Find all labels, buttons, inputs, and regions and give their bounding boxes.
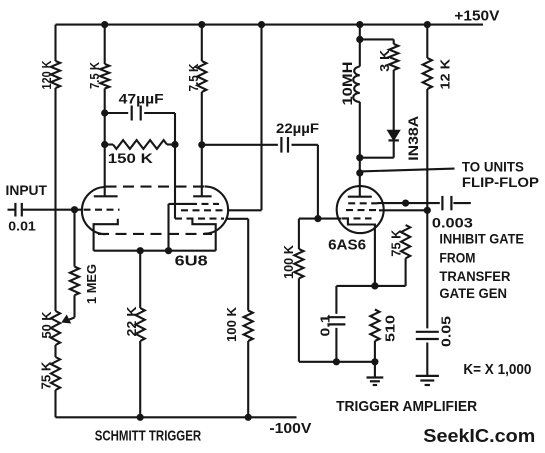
- 6AS6 screen lead to output: [378, 202, 406, 204]
- resistor 75K lower-left: [51, 357, 60, 390]
- wire 0.05 bottom lead: [426, 343, 428, 376]
- node top rail / 12K junction: [424, 21, 431, 28]
- svg-text:INHIBIT GATE: INHIBIT GATE: [439, 232, 524, 247]
- svg-text:7.5 K: 7.5 K: [88, 62, 102, 89]
- svg-text:120 K: 120 K: [40, 61, 54, 90]
- wire 150K right stub: [167, 143, 175, 145]
- wire 0.1 bottom lead: [335, 328, 337, 362]
- svg-text:22 K: 22 K: [125, 307, 139, 337]
- svg-text:SCHMITT TRIGGER: SCHMITT TRIGGER: [95, 427, 202, 444]
- wire 150K left stub: [105, 143, 113, 145]
- wire 47uuF left lead: [105, 112, 129, 114]
- svg-text:+150V: +150V: [454, 8, 499, 25]
- potentiometer wiper arrow into 50K: [64, 318, 75, 322]
- wire 22K bottom lead: [139, 341, 141, 417]
- node 12K / grid3 junction: [424, 207, 431, 214]
- capacitor 0.1: [327, 316, 345, 318]
- wire 100K schmitt bottom lead: [247, 341, 249, 417]
- wire 0.1 top lead: [335, 286, 337, 314]
- 6AS6 cathode: [348, 219, 375, 286]
- svg-text:6AS6: 6AS6: [328, 237, 366, 253]
- wire cathode bus: [94, 250, 216, 252]
- svg-text:GATE GEN: GATE GEN: [439, 286, 507, 301]
- wire 7.5K-2 to V2 plate node: [201, 92, 203, 196]
- wire left column to -100V rail: [54, 390, 56, 417]
- resistor 7.5K second: [197, 61, 206, 92]
- resistor 1 MEG: [70, 267, 79, 296]
- capacitor 47uuF: [131, 106, 133, 121]
- node -100V rail / 100K junction: [245, 414, 252, 421]
- resistor 150K coupling: [113, 140, 167, 149]
- svg-text:TO UNITS: TO UNITS: [462, 159, 524, 175]
- wire 510 bottom lead: [374, 341, 376, 362]
- wire 7.5K-2 top lead: [201, 25, 203, 61]
- wire trigger-amp ground bus: [299, 361, 375, 363]
- svg-text:75 K: 75 K: [390, 230, 404, 257]
- wire 7.5K-1 to plate node: [104, 89, 106, 146]
- node bus / 0.1 junction: [333, 358, 340, 365]
- resistor 22K: [136, 308, 145, 341]
- node cathode / 510 junction: [371, 282, 378, 289]
- svg-text:100 K: 100 K: [225, 307, 239, 342]
- svg-text:-100V: -100V: [269, 420, 311, 437]
- ground below 510: [374, 362, 376, 378]
- svg-text:1 MEG: 1 MEG: [85, 264, 99, 304]
- wire 12K bottom lead: [426, 89, 428, 210]
- resistor 75K trigger: [401, 225, 410, 258]
- wire left column mid segment: [54, 88, 56, 311]
- V1 triode plate: [94, 195, 118, 197]
- svg-text:150 K: 150 K: [108, 151, 153, 166]
- svg-text:0.003: 0.003: [432, 216, 474, 231]
- wire V2 plate to 22uuF: [202, 144, 278, 146]
- wire 22uuF to grid drop: [292, 144, 318, 146]
- wire output to flip-flop: [360, 169, 455, 172]
- svg-text:47µµF: 47µµF: [119, 92, 164, 107]
- V1 triode grid (dashed): [84, 209, 120, 211]
- wire -100V rail: [56, 416, 297, 418]
- svg-text:TRANSFER: TRANSFER: [439, 269, 510, 284]
- svg-text:50 K: 50 K: [40, 312, 54, 339]
- svg-text:22µµF: 22µµF: [276, 121, 319, 136]
- tube 6U8 envelope right arc: [205, 186, 229, 233]
- inductor 10MH: [353, 67, 360, 102]
- wire 3K to diode: [393, 70, 395, 131]
- resistor 100K trigger: [294, 249, 303, 278]
- node cathode bus / 22K junction: [137, 247, 144, 254]
- resistor 3K: [389, 44, 398, 70]
- wire grid junction to 100K: [299, 218, 318, 220]
- svg-text:10MH: 10MH: [339, 62, 355, 106]
- ground below 0.05: [416, 375, 439, 377]
- svg-text:7.5 K: 7.5 K: [187, 64, 201, 92]
- svg-text:IN38A: IN38A: [406, 116, 421, 161]
- wire screen-grid drop: [260, 25, 262, 211]
- svg-text:FROM: FROM: [439, 250, 475, 265]
- svg-text:0.01: 0.01: [8, 219, 36, 234]
- wire 100K trigger bottom lead: [298, 278, 300, 361]
- svg-text:6U8: 6U8: [175, 253, 208, 269]
- node plate branch split: [356, 36, 363, 43]
- capacitor C1 0.01 input coupling: [14, 203, 16, 217]
- V2 suppressor tie lead: [169, 203, 191, 205]
- wire V1 plate lead: [104, 145, 106, 197]
- node top rail / plate-load branch junction: [356, 21, 363, 28]
- node plate branch merge: [356, 154, 363, 161]
- wire 47uuF right lead: [144, 112, 175, 114]
- 6AS6 grid3 lead to 12K: [379, 209, 427, 211]
- wire coil bottom to merge node: [359, 102, 361, 173]
- V2 control grid (dashed): [175, 218, 224, 220]
- wire 22K top lead: [139, 251, 141, 308]
- tube 6U8 envelope bottom dashed edge: [98, 233, 212, 235]
- wire 1MEG upper lead: [73, 210, 75, 267]
- wire 1MEG lower lead: [73, 295, 75, 317]
- svg-text:100 K: 100 K: [282, 245, 296, 279]
- node top rail / second 7.5K column junction: [198, 21, 205, 28]
- svg-text:K= X 1,000: K= X 1,000: [463, 361, 531, 378]
- tube 6AS6 envelope: [337, 186, 384, 233]
- node cathode bus / suppressor junction: [165, 247, 172, 254]
- diode 1N38A: [388, 130, 400, 140]
- wire diode to merge node: [393, 140, 395, 157]
- svg-text:0.05: 0.05: [440, 316, 454, 347]
- capacitor 22uuF coupling: [280, 137, 282, 153]
- V2 screen grid (dashed): [181, 209, 228, 211]
- node 47uuF tap: [101, 109, 108, 116]
- wire 7.5K-1 top lead: [104, 25, 106, 64]
- svg-text:0.1: 0.1: [319, 314, 333, 336]
- node 22uuF / 100K / grid junction: [314, 215, 321, 222]
- wire grid junction to tube: [318, 218, 342, 220]
- resistor 510: [370, 310, 379, 342]
- V2 pentode cathode: [192, 219, 215, 251]
- capacitor 0.003 output: [441, 196, 443, 210]
- capacitor 0.05: [416, 331, 439, 333]
- 6AS6 screen grid (dashed): [348, 202, 377, 204]
- node 150K right junction: [171, 141, 178, 148]
- node top rail / screen-grid drop junction: [258, 21, 265, 28]
- wire 75K bottom lead: [405, 258, 407, 286]
- wire screen output line: [406, 202, 440, 204]
- wire plate column top: [359, 25, 361, 67]
- svg-text:510: 510: [383, 315, 398, 342]
- node screen / 75K junction: [402, 200, 409, 207]
- node flip-flop output tap: [356, 169, 363, 176]
- node top rail / 7.5K column junction: [101, 21, 108, 28]
- svg-text:75 K: 75 K: [40, 362, 54, 390]
- V2 pentode plate: [193, 195, 211, 197]
- V2 control grid right lead: [226, 218, 249, 220]
- resistor R1 120K: [51, 61, 60, 88]
- node V2 plate / 22uuF junction: [198, 141, 205, 148]
- wire input to grid: [22, 209, 83, 211]
- node plate / 150K left junction: [101, 141, 108, 148]
- tube 6U8 envelope top dashed edge: [106, 186, 205, 188]
- node bus / 510 junction: [371, 358, 378, 365]
- 6AS6 control grid (dashed): [342, 217, 372, 219]
- wire 12K top lead: [426, 25, 428, 58]
- svg-text:SeekIC.com: SeekIC.com: [423, 426, 535, 446]
- svg-text:TRIGGER AMPLIFIER: TRIGGER AMPLIFIER: [336, 398, 477, 415]
- resistor 7.5K first: [100, 64, 109, 89]
- wire 0.003 right lead: [453, 202, 470, 204]
- svg-text:3 K: 3 K: [378, 50, 392, 72]
- wire between 50K and 75K: [54, 345, 56, 357]
- wire 3K branch top: [360, 38, 394, 40]
- wire cathode node line: [336, 285, 405, 287]
- wire node B down to V2 grid: [174, 145, 176, 219]
- svg-text:FLIP-FLOP: FLIP-FLOP: [462, 174, 539, 190]
- wire 0.05 top lead: [426, 210, 428, 328]
- node input / 1MEG junction: [71, 206, 78, 213]
- resistor 12K: [423, 58, 432, 89]
- wire left column upper segment: [54, 25, 56, 61]
- V2 suppressor grid (dashed): [190, 203, 219, 205]
- 6AS6 grid3 (dashed): [346, 209, 379, 211]
- resistor 100K schmitt: [244, 311, 253, 342]
- wire input stub: [8, 209, 16, 211]
- node -100V rail / 22K junction: [137, 414, 144, 421]
- resistor 50K potentiometer: [51, 311, 60, 345]
- wire +150V supply rail: [56, 24, 484, 26]
- V1 triode cathode: [94, 219, 118, 251]
- 6AS6 plate: [348, 196, 372, 198]
- svg-text:INPUT: INPUT: [6, 182, 48, 198]
- svg-text:12 K: 12 K: [439, 59, 453, 90]
- tube 6U8 envelope left arc: [82, 187, 106, 234]
